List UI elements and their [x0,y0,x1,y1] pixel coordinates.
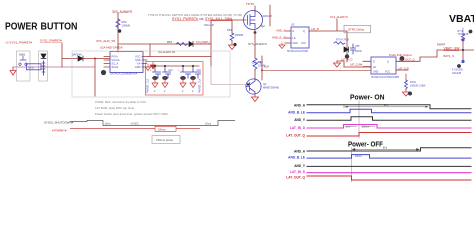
svg-text:MMBT3904/B: MMBT3904/B [263,86,279,90]
wire delay node [346,38,348,62]
svg-text:~8 SEC: ~8 SEC [130,123,139,126]
svg-text:AND_A: AND_A [276,29,285,33]
svg-text:LAT_IN_D: LAT_IN_D [290,126,306,130]
svg-text:AND_B_LE: AND_B_LE [288,111,305,115]
svg-text:# PWRBT#: # PWRBT# [52,128,67,132]
svg-text:D: D [373,61,375,64]
svg-text:SYS1_PWRBT#: SYS1_PWRBT# [40,39,62,43]
net SYS_ALWAYS [254,31,257,34]
wire pwrbt waveform [70,128,200,130]
svg-text:SYS_ALWAYS: SYS_ALWAYS [248,42,267,46]
wire AND_Y OFF [307,165,471,167]
svg-text:100nF/B: 100nF/B [252,62,262,65]
svg-text:SN74LVC1G373DCKR/B: SN74LVC1G373DCKR/B [371,76,399,79]
svg-text:GND: GND [373,71,379,74]
svg-text:GND: GND [293,42,299,45]
svg-text:OR+4P: OR+4P [204,23,214,27]
svg-text:U3: U3 [291,23,295,27]
capacitor C20 [150,65,161,88]
wire kill-gate vertical [210,20,212,66]
svg-text:100K/B: 100K/B [235,33,244,37]
wire AND_B_LE OFF [307,155,471,159]
node 100ms glitch box [155,126,176,131]
svg-text:Push-Pull Output: Push-Pull Output [389,53,412,57]
ground [279,43,285,49]
wire AND_Y ON [307,117,471,121]
svg-text:SYS1_PWRBT_L: SYS1_PWRBT_L [196,40,210,44]
svg-text:LAT_CLR: LAT_CLR [398,67,409,70]
capacitor C60 [461,60,464,63]
svg-text:SC2A: SC2A [112,65,119,69]
diode eye D20 [152,76,158,80]
svg-text:C23: C23 [197,70,202,72]
svg-text:Power- OFF: Power- OFF [348,140,384,149]
wire OFF reference line [351,148,353,183]
svg-text:Y/A: Y/A [136,62,140,66]
wire gate horizontal [211,19,246,21]
svg-text:U2A AND GATE/A: U2A AND GATE/A [100,46,123,50]
svg-text:Q2: Q2 [261,24,265,28]
svg-text:100K/B 1/16W: 100K/B 1/16W [410,85,426,88]
svg-text:SNS: SNS [135,58,141,62]
svg-text:LAT_IN_D: LAT_IN_D [290,170,306,174]
wire from switch to diode [62,43,77,67]
ground [403,90,410,97]
svg-text:10ms: 10ms [105,123,112,126]
svg-text:VCC: VCC [301,42,306,45]
svg-text:R54: R54 [227,28,232,32]
op-amp U2A AND gate [110,52,143,73]
svg-text:SW1: SW1 [19,53,26,57]
capacitor C22 [178,65,191,88]
wire inside rail [150,65,199,67]
svg-text:C13_ALWAYS: C13_ALWAYS [330,15,348,19]
svg-text:SYS1_PWRBT#: SYS1_PWRBT# [172,17,198,21]
svg-text:COM1, DK1: internal to & pullu: COM1, DK1: internal to & pullup to VCC [95,100,146,104]
svg-text:150ms pulse: 150ms pulse [156,138,173,142]
svg-text:LAT_OUT_Q: LAT_OUT_Q [286,134,305,138]
svg-text:STR1 Delay: STR1 Delay [348,28,365,32]
svg-text:C21: C21 [169,70,174,72]
wire AND_B_LE ON [307,109,471,113]
G_SCHEMATIC [5,2,371,102]
wire base [211,66,248,85]
svg-text:BAT1_S: BAT1_S [444,54,455,58]
svg-text:ACK: ACK [264,66,269,69]
svg-text:PWRBT_DLY: PWRBT_DLY [147,78,150,93]
ground [334,61,341,67]
wire LAT_IN_D OFF [307,172,471,174]
svg-text:LAT_B: LAT_B [311,27,319,31]
wire AND out riser [149,44,151,57]
svg-text:VCC: VCC [135,55,141,59]
wire to Q4 [254,70,256,79]
svg-text:Q: Q [303,30,305,33]
svg-text:Power button (out) (low) time:: Power button (out) (low) time: system tu… [95,112,168,116]
diode eye D21 [162,76,168,80]
wire collector tap [261,56,263,80]
diode D5 [344,47,349,52]
wire bottom rail [13,66,95,68]
svg-text:100K/B: 100K/B [122,24,131,28]
svg-text:R51: R51 [167,40,173,44]
svg-text:SN74LVC1G08DBVR/A: SN74LVC1G08DBVR/A [110,72,138,76]
resistor R77 VBAT pull-up [462,28,464,34]
wire stub right [396,69,408,71]
wire 5V branch right [269,5,271,26]
svg-text:AND_Y: AND_Y [294,118,306,122]
diode eye D22 [180,76,186,80]
svg-text:AND_B_LE: AND_B_LE [272,36,286,40]
wire LAT_CLR [337,61,371,67]
svg-text:PG/A: PG/A [112,55,118,59]
svg-text:VBAT_SW: VBAT_SW [444,47,461,51]
ground AND gate [146,65,151,71]
resistor R79 [334,42,345,45]
svg-text:3V3_ALWAYS: 3V3_ALWAYS [112,10,132,14]
resistor R55 [253,58,257,70]
wire AND out to kill gate [148,56,211,58]
svg-text:<3 SYS1_PWRBT#: <3 SYS1_PWRBT# [5,41,32,45]
svg-text:AND_A: AND_A [294,103,306,107]
svg-text:3V3_ALW_S5: 3V3_ALW_S5 [96,39,115,43]
capacitor C23 [190,65,201,88]
wire LAT_IN_D ON [307,125,471,129]
svg-text:SYS01_SHUTDOWN#: SYS01_SHUTDOWN# [44,121,74,125]
svg-text:LAT_OUT_Q: LAT_OUT_Q [399,57,414,61]
svg-text:200ms: 200ms [355,156,363,158]
svg-text:Q4: Q4 [263,82,267,86]
svg-text:100ms: 100ms [158,127,167,131]
svg-text:GND: GND [135,65,141,69]
diode box D1 [39,51,48,81]
wire down tap [94,59,96,97]
svg-text:D: D [293,30,295,33]
resistor R54 gate pulldown [231,20,233,33]
svg-text:POWER: POWER [5,22,38,33]
wire AND_A ON [307,105,471,109]
G_NOTES bottom-left [44,100,235,144]
svg-text:PWRBT_DLY: PWRBT_DLY [199,78,202,93]
wire AND_A OFF [307,148,471,151]
svg-text:(N) ALWAYS5: (N) ALWAYS5 [158,50,176,54]
capacitor C21 [162,65,173,88]
wire horizontal to kill gate [118,43,211,45]
wire LAT_OUT_Q OFF [307,176,471,180]
delay box (red) [146,62,204,95]
svg-text:100nF/B: 100nF/B [452,72,461,75]
box STR1 delay note [344,25,371,33]
wire VBAT node [462,40,464,61]
transistor Q1 kill MOSFET [244,11,263,30]
ground [229,41,236,50]
resistor R50 [116,19,120,29]
svg-text:200ms: 200ms [362,126,370,128]
junction dot [118,29,122,33]
svg-text:VBAT: VBAT [449,13,474,25]
svg-text:AND_Y: AND_Y [294,164,306,168]
diode eye D23 [190,76,196,80]
ground [252,94,259,102]
svg-text:AND_B_LE: AND_B_LE [288,156,305,160]
svg-text:SN74LVC1G373/B: SN74LVC1G373/B [287,50,308,53]
svg-text:8 s: 8 s [384,103,389,107]
wire U4 out [396,50,474,61]
svg-text:AND_A: AND_A [294,149,306,153]
svg-text:BUTTON: BUTTON [41,22,78,33]
resistor R73 [405,80,408,90]
svg-text:TP 5V: TP 5V [246,2,254,6]
svg-text:Q: Q [387,61,389,64]
svg-text:A/B: A/B [199,17,204,21]
wire shutdown waveform [70,121,235,126]
svg-text:LAT_IN_D: LAT_IN_D [341,59,353,62]
node codec pulse box [152,136,180,144]
svg-text:Power- ON: Power- ON [350,93,385,102]
switch SW1 box [17,51,31,81]
svg-text:C55: C55 [355,45,360,48]
svg-text:SC_A: SC_A [112,62,119,66]
latch U4 push-pull [371,57,396,74]
wire 3V3 rail vertical [117,13,119,52]
svg-text:100nF: 100nF [355,50,362,53]
section enclosure box [72,51,230,97]
svg-text:LAT_CLR#: LAT_CLR# [350,63,363,66]
G_SCHEMATIC_RIGHT [272,15,474,96]
power flag arrow [151,62,156,69]
svg-text:8 s: 8 s [383,146,388,150]
svg-text:10ms: 10ms [205,123,212,126]
svg-text:VCC/A: VCC/A [112,58,120,62]
latch U3 [291,27,309,48]
svg-text:LE: LE [373,66,376,69]
diode D3 [189,42,193,47]
resistor R51 [176,43,188,46]
power 5V stub [254,6,256,12]
resistor R52 horizontal [27,64,42,70]
transistor Q4 [246,79,261,94]
ground arrow left [10,67,16,75]
svg-text:NET1: NET1 [150,64,157,68]
wire diode to AND pin [83,58,110,60]
svg-text:TP100K/B: TP100K/B [458,33,469,36]
wire LAT_IN_D long [262,69,371,71]
svg-text:LAT_OUT_Q: LAT_OUT_Q [286,175,305,179]
logo dot [101,70,106,75]
svg-text:BAT54/A: BAT54/A [72,54,82,57]
svg-text:VCC: VCC [385,71,390,74]
wire U3 out [315,19,347,38]
capacitor C55 [351,44,356,54]
svg-text:LAT RoW: (low) ROC top timer: LAT RoW: (low) ROC top timer [95,106,134,110]
svg-text:R50: R50 [122,20,127,24]
wire LAT_OUT_Q ON [307,133,471,137]
G_TIMING [286,93,471,183]
wire ON reference line [358,101,360,139]
svg-text:LE: LE [293,37,296,40]
